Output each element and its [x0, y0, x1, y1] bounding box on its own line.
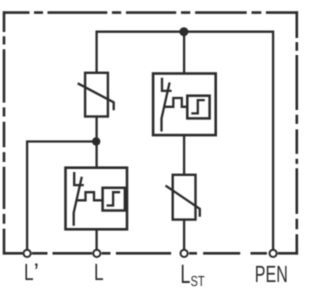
spark gap F1 trigger unit step symbol [191, 100, 205, 113]
svg-text:L: L [24, 259, 34, 285]
varistor RV2 body [173, 175, 196, 220]
varistor RV1 strike-through [78, 83, 114, 110]
junction node B (L branch / L' branch) [92, 137, 100, 145]
spark gap F2 trigger unit step symbol [107, 192, 121, 205]
wire: RV1 bottom to junction node B [95, 117, 97, 142]
wire: RV2 bottom to terminal L_ST [183, 220, 185, 251]
enclosure border left (dash-dot) [3, 11, 6, 254]
svg-text:’: ’ [34, 259, 39, 286]
wire: node B to L' branch (horizontal + vertical down to L') [27, 142, 97, 251]
enclosure border bottom (dash-dot through terminals) [3, 252, 298, 255]
spark gap F1 trigger pulse line [164, 98, 187, 107]
varistor RV2 strike-through [166, 186, 200, 217]
varistor RV1 body [85, 73, 108, 117]
terminal PEN circle [270, 250, 277, 257]
spark gap F1 trigger unit box [187, 96, 209, 119]
spark gap F1 blade [162, 83, 170, 132]
spark gap F2 fixed contact with foot [74, 172, 84, 185]
junction node A (top bus / spark gap branch) [179, 27, 188, 36]
wire: node B down to spark gap F2 [95, 142, 97, 168]
svg-text:L: L [94, 259, 104, 285]
spark gap F2 trigger unit box [103, 188, 125, 211]
terminal L' circle [24, 250, 31, 257]
terminal L_ST circle [181, 250, 188, 257]
wire: F1 bottom to varistor RV2 [183, 135, 185, 175]
terminal L circle [93, 250, 100, 257]
spark gap F2 box (lower left) [66, 168, 128, 230]
spark gap F1 fixed contact with foot [162, 78, 172, 91]
enclosure border top (dash-dot) [3, 11, 298, 14]
wire: F2 bottom to terminal L [95, 229, 97, 250]
spark gap F2 trigger pulse line [77, 192, 103, 200]
svg-text:PEN: PEN [255, 261, 288, 287]
svg-text:ST: ST [191, 274, 205, 290]
wire: node A down to spark gap F1 [183, 32, 185, 74]
svg-text:L: L [180, 259, 190, 289]
wire: top bus from varistor RV1 to PEN drop [97, 32, 274, 251]
spark gap F1 box (upper right) [153, 74, 216, 136]
enclosure border right (dash-dot) [295, 11, 298, 254]
spark gap F2 blade [74, 177, 82, 226]
